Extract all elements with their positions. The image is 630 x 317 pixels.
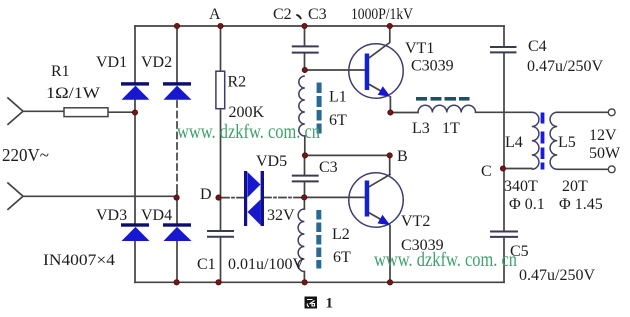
diac VD5 (244, 171, 264, 226)
capacitor C3 (292, 176, 319, 182)
svg-text:VT1: VT1 (405, 40, 434, 57)
wire R2 bottom lead to node D (220, 110, 222, 197)
wire VT2 base (304, 196, 364, 198)
inductor L1 core dashes (317, 83, 322, 134)
svg-text:C3: C3 (319, 159, 338, 176)
svg-text:200K: 200K (229, 104, 265, 121)
node dot D (216, 195, 221, 200)
svg-text:6T: 6T (329, 112, 347, 129)
svg-text:www. dzkfw. com. cn: www. dzkfw. com. cn (177, 121, 320, 143)
svg-text:L3: L3 (412, 120, 430, 137)
capacitor C4 (490, 47, 517, 52)
output terminal top (608, 109, 615, 116)
svg-text:Φ 1.45: Φ 1.45 (559, 196, 603, 213)
wire C5 bottom lead (503, 238, 505, 283)
node dot bus C1 (216, 280, 221, 285)
svg-text:C2: C2 (273, 6, 292, 23)
wire VD5 to C3 node dash-dot (264, 197, 303, 199)
node dot C (500, 166, 505, 171)
svg-text:340T: 340T (504, 178, 538, 195)
wire left column vertical (134, 26, 136, 282)
wire top bus (135, 25, 504, 27)
wire node C to primary (503, 168, 532, 170)
svg-text:L4: L4 (505, 134, 523, 151)
wire VD2 top lead (176, 26, 178, 82)
svg-text:0.47u/250V: 0.47u/250V (519, 267, 595, 284)
node input terminal 2 (8, 183, 23, 209)
svg-text:L5: L5 (558, 134, 576, 151)
svg-text:C: C (481, 163, 492, 180)
resistor R2 (216, 71, 225, 109)
wire secondary top to output (557, 111, 608, 113)
svg-text:www. dzkfw. com. cn: www. dzkfw. com. cn (374, 249, 517, 271)
svg-text:VD3: VD3 (96, 207, 127, 224)
svg-text:R2: R2 (228, 74, 247, 91)
wire emitter to L3 (390, 112, 418, 114)
diode VD4 (163, 223, 192, 241)
diode VD2 (163, 82, 192, 100)
svg-text:0.01u/100V: 0.01u/100V (228, 256, 304, 273)
transformer L4 primary (532, 112, 539, 169)
caption figure 1 (305, 296, 334, 312)
node dot C2/L1 (302, 67, 307, 72)
node dot bus A1 (174, 23, 179, 28)
inductor L1 (299, 76, 305, 136)
svg-text:L1: L1 (329, 89, 347, 106)
wire C3 leads (304, 155, 306, 197)
wire L1 bottom lead (304, 136, 306, 155)
wire R2 top lead (220, 26, 222, 72)
svg-text:VD4: VD4 (141, 207, 172, 224)
node dot input2 junction (174, 195, 179, 200)
svg-text:20T: 20T (562, 178, 588, 195)
svg-text:C4: C4 (528, 38, 547, 55)
svg-text:Φ 0.1: Φ 0.1 (509, 196, 545, 213)
capacitor C5 (490, 232, 518, 237)
node dot B (387, 153, 392, 158)
wire VT1 collector (370, 26, 390, 58)
node input terminal 1 (8, 98, 23, 124)
node dot R1 junction (132, 110, 137, 115)
wire C2 leads (304, 26, 306, 70)
wire R1 to node (108, 111, 135, 113)
svg-text:1T: 1T (442, 120, 460, 137)
inductor L3 core dashes (416, 97, 470, 101)
node dot bus L2 (302, 280, 307, 285)
transistor VT2 (349, 173, 403, 227)
inductor L2 (298, 209, 304, 272)
inductor L2 core dashes (316, 210, 321, 269)
svg-text:C1: C1 (197, 256, 216, 273)
node dot L1/C3 (302, 153, 307, 158)
diode VD3 (121, 223, 150, 241)
node dot bus C2 (302, 23, 307, 28)
svg-text:IN4007×4: IN4007×4 (43, 252, 115, 269)
wire C4 top lead (503, 26, 505, 46)
wire VD4 leads (176, 192, 178, 282)
wire L3 to transformer (476, 111, 532, 113)
wire input2 (23, 195, 177, 197)
svg-text:A: A (209, 6, 221, 23)
wire VT2 emitter (370, 213, 391, 282)
svg-text:1: 1 (326, 296, 334, 312)
svg-text:VD1: VD1 (96, 54, 127, 71)
transformer L5 secondary (550, 112, 557, 169)
wire input1 to R1 (23, 110, 64, 112)
svg-text:VD2: VD2 (141, 54, 172, 71)
svg-text:50W: 50W (589, 145, 621, 162)
wire node B to VT2 collector (370, 155, 391, 186)
svg-text:0.47u/250V: 0.47u/250V (527, 58, 603, 75)
wire bottom bus (135, 281, 504, 283)
svg-text:C3: C3 (308, 6, 327, 23)
transistor VT1 (349, 44, 403, 98)
svg-text:220V~: 220V~ (2, 145, 49, 165)
svg-text:B: B (397, 148, 408, 165)
node dot VT1 emitter (388, 110, 393, 115)
svg-text:L2: L2 (332, 226, 350, 243)
svg-text:1Ω/1W: 1Ω/1W (46, 85, 101, 102)
inductor L3 (418, 105, 476, 112)
svg-text:D: D (200, 186, 212, 203)
wire VT1 base (305, 69, 365, 71)
transformer core (541, 113, 545, 170)
svg-text:C3039: C3039 (411, 58, 454, 75)
wire VD2-VD4 dashed link (176, 101, 178, 192)
wire D to VD5 dash-dot (222, 197, 244, 199)
wire VT1 emitter (370, 85, 391, 113)
node dot C3/L2 (302, 195, 307, 200)
svg-text:32V: 32V (267, 207, 295, 224)
capacitor C2 (292, 46, 319, 52)
node dot bus VD4 (174, 280, 179, 285)
node dot A (218, 23, 223, 28)
wire L2 leads (303, 197, 305, 282)
svg-text:1000P/1kV: 1000P/1kV (351, 6, 413, 23)
wire C1 leads (220, 198, 222, 283)
diode VD1 (121, 82, 150, 100)
svg-text:12V: 12V (589, 127, 617, 144)
output terminal bottom (608, 166, 615, 173)
node dot VT2 emitter (387, 280, 392, 285)
svg-text:VT2: VT2 (401, 213, 430, 230)
svg-text:VD5: VD5 (256, 153, 287, 170)
svg-text:R1: R1 (51, 63, 70, 80)
wire C4-C5 column (503, 53, 505, 231)
resistor R1 (64, 108, 108, 117)
capacitor C1 (207, 231, 234, 237)
wire to node B (305, 154, 390, 156)
svg-text:6T: 6T (333, 249, 351, 266)
node dot VT1 collector (387, 23, 392, 28)
wire secondary bottom to output (557, 168, 608, 170)
